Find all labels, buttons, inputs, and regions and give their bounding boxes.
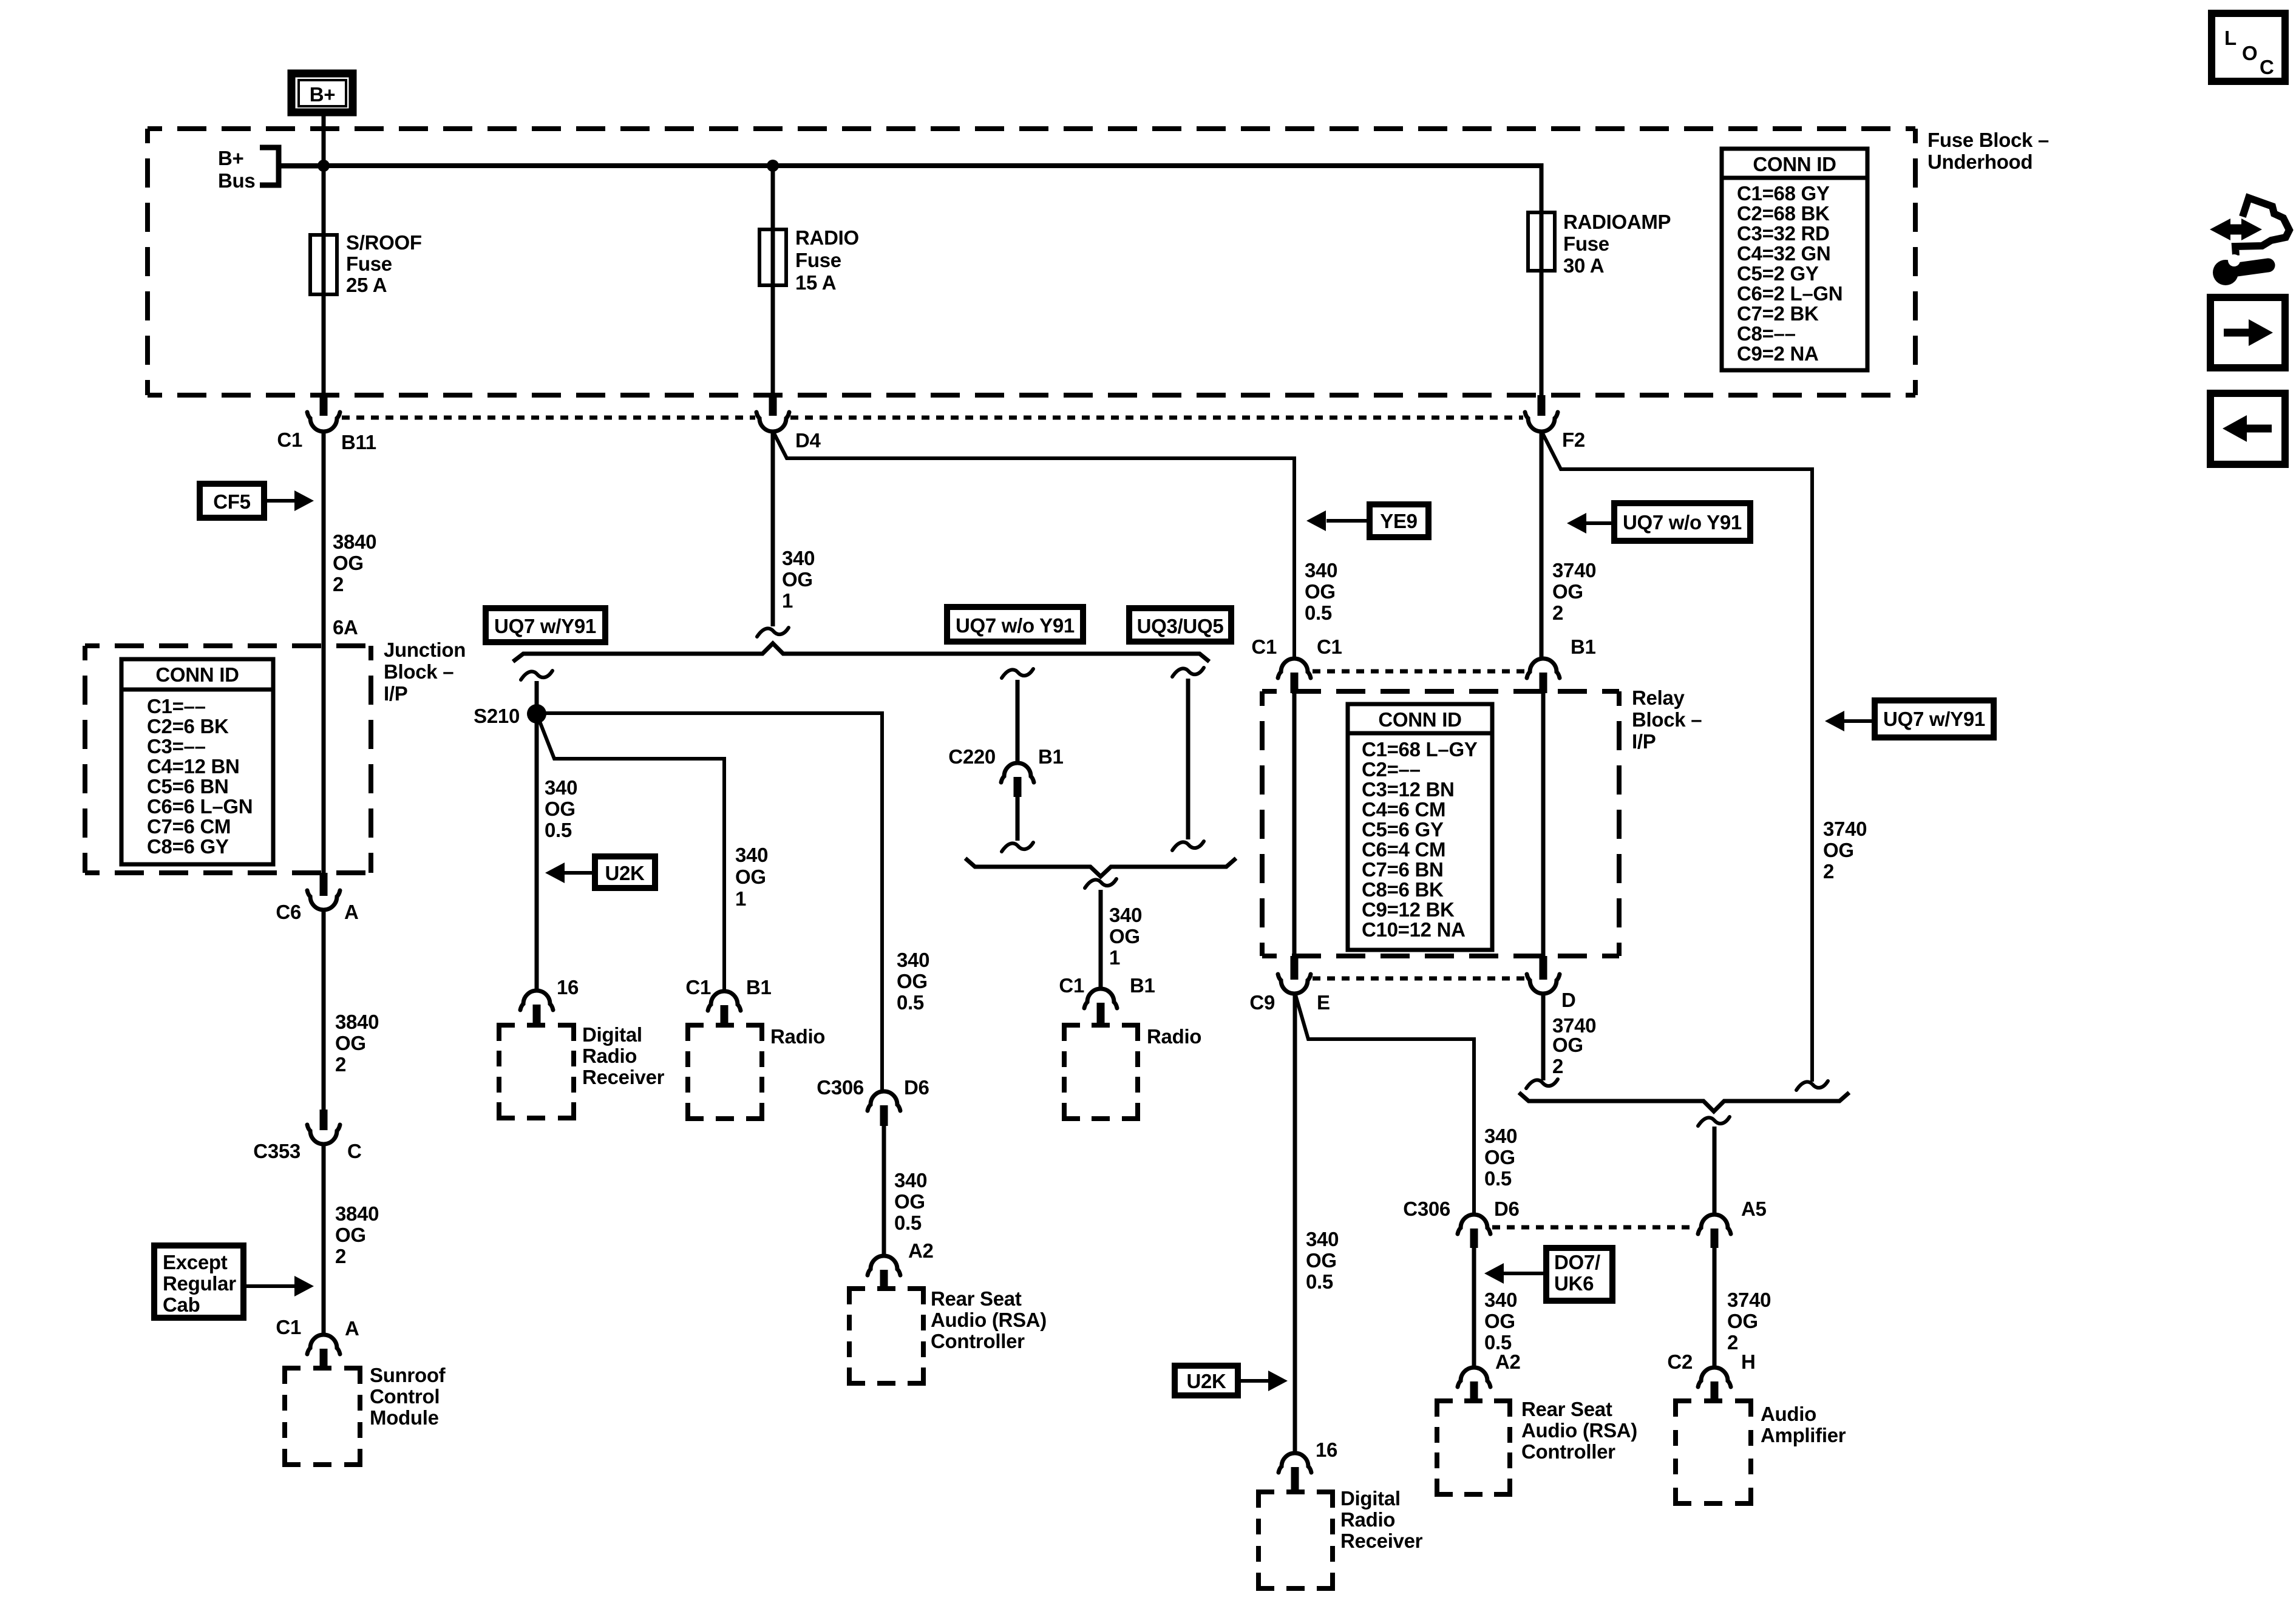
svg-text:15 A: 15 A <box>795 271 836 294</box>
svg-text:Receiver: Receiver <box>1340 1530 1423 1552</box>
svg-text:B+: B+ <box>310 83 336 106</box>
svg-text:C220: C220 <box>948 745 996 768</box>
label 340 OG 0.5 <box>894 1169 927 1234</box>
svg-text:340: 340 <box>1484 1125 1517 1147</box>
svg-text:OG: OG <box>735 866 766 888</box>
wire fuse to B11 <box>322 294 326 396</box>
svg-text:CF5: CF5 <box>213 490 250 513</box>
svg-text:2: 2 <box>1823 860 1834 883</box>
svg-text:A2: A2 <box>908 1239 934 1262</box>
svg-text:1: 1 <box>735 887 746 910</box>
svg-text:0.5: 0.5 <box>897 991 924 1014</box>
connector C1/B1 cup (right radio) <box>1084 989 1117 1008</box>
branch S210 to C306 (left) <box>537 713 882 1093</box>
harness option brace <box>513 643 1209 662</box>
svg-text:I/P: I/P <box>1632 730 1656 753</box>
svg-text:Digital: Digital <box>582 1023 642 1046</box>
svg-text:OG: OG <box>1484 1310 1515 1332</box>
svg-text:OG: OG <box>897 970 928 992</box>
connector D4 cup <box>756 412 789 432</box>
svg-text:Except: Except <box>163 1251 228 1273</box>
dotted line relay block top <box>1313 669 1525 674</box>
B+ bus wire <box>279 163 1544 168</box>
svg-text:B11: B11 <box>341 431 376 453</box>
dotted line relay block bottom <box>1313 977 1525 981</box>
connector C1/B1 cup (left radio) <box>708 991 741 1011</box>
connector A2 pin stub <box>880 1270 888 1290</box>
label Junction Block - I/P <box>384 639 466 705</box>
svg-text:340: 340 <box>1306 1228 1339 1250</box>
svg-text:Junction: Junction <box>384 639 466 661</box>
label 340 OG 0.5 (C306 branch) <box>1484 1125 1517 1190</box>
connector C1/B1 pin stub <box>1097 1003 1105 1026</box>
connector A2 cup (left RSA) <box>868 1256 900 1275</box>
splice S210 <box>527 704 546 724</box>
label B+ Bus <box>218 147 255 192</box>
svg-text:OG: OG <box>1727 1310 1758 1332</box>
dotted line C306 to A5 <box>1492 1225 1696 1230</box>
connector D cup <box>1527 974 1560 994</box>
svg-text:Block –: Block – <box>1632 708 1702 731</box>
svg-text:RADIO: RADIO <box>795 226 859 249</box>
connector F2 pin stub <box>1538 395 1546 416</box>
connector D4 pin stub <box>769 395 777 416</box>
label 340 OG 0.5 <box>1484 1289 1517 1354</box>
connector C1/A pin stub <box>320 1349 328 1369</box>
wire UQ3/UQ5 branch <box>1186 679 1190 839</box>
svg-text:Rear Seat: Rear Seat <box>1521 1398 1612 1420</box>
svg-text:C3=32 RD: C3=32 RD <box>1737 222 1830 245</box>
label 3840 OG 2 <box>335 1011 379 1076</box>
svg-text:C7=6 BN: C7=6 BN <box>1362 858 1444 881</box>
svg-text:C2=6 BK: C2=6 BK <box>147 715 229 737</box>
svg-text:340: 340 <box>735 844 768 866</box>
option box UQ7 w/Y91 <box>486 608 605 642</box>
svg-text:C3=––: C3=–– <box>147 735 206 757</box>
svg-text:Audio (RSA): Audio (RSA) <box>931 1309 1047 1331</box>
wire break <box>757 628 789 637</box>
svg-text:2: 2 <box>1552 602 1563 624</box>
svg-text:Relay: Relay <box>1632 686 1685 709</box>
wire brace to A5 <box>1713 1127 1717 1216</box>
label Audio Amplifier <box>1761 1403 1846 1446</box>
svg-text:Fuse: Fuse <box>346 252 392 275</box>
svg-text:OG: OG <box>894 1190 925 1213</box>
wire break C220 top <box>1002 669 1033 678</box>
wire break UQ3/UQ5 top <box>1172 668 1204 677</box>
svg-text:C2: C2 <box>1667 1351 1693 1373</box>
svg-text:Controller: Controller <box>931 1330 1025 1352</box>
Sunroof Control Module box <box>285 1368 360 1465</box>
power symbol B+ <box>291 73 353 112</box>
svg-text:OG: OG <box>333 552 364 574</box>
label Sunroof Control Module <box>370 1364 446 1429</box>
svg-text:U2K: U2K <box>605 862 645 884</box>
svg-text:UK6: UK6 <box>1554 1272 1594 1295</box>
svg-text:340: 340 <box>1484 1289 1517 1311</box>
svg-text:OG: OG <box>335 1224 366 1246</box>
svg-text:C9=2 NA: C9=2 NA <box>1737 342 1819 365</box>
svg-text:OG: OG <box>1552 1034 1583 1056</box>
svg-text:3740: 3740 <box>1823 818 1867 840</box>
connector C306/D6 pin stub <box>1470 1229 1478 1248</box>
svg-text:OG: OG <box>1552 580 1583 603</box>
svg-text:0.5: 0.5 <box>1305 602 1332 624</box>
option arrow Except Regular Cab <box>154 1246 314 1318</box>
wire break <box>1796 1081 1828 1090</box>
wire E down to digital radio receiver <box>1293 993 1297 1454</box>
wire F2 down to relay B1 <box>1540 431 1544 660</box>
connector C6/A pin stub <box>320 873 328 896</box>
label 3840 OG 2 <box>333 530 376 595</box>
connector C220/B1 pin stub <box>1014 777 1022 797</box>
svg-text:D6: D6 <box>904 1076 929 1099</box>
svg-text:Amplifier: Amplifier <box>1761 1424 1846 1446</box>
pass-through dotted line fuse block <box>342 416 1523 420</box>
branch D4 to relay block C1 <box>773 431 1294 660</box>
label Rear Seat Audio (RSA) Controller <box>931 1287 1047 1352</box>
label Digital Radio Receiver <box>1340 1487 1423 1552</box>
svg-text:Sunroof: Sunroof <box>370 1364 446 1386</box>
Audio Amplifier box <box>1676 1401 1751 1503</box>
wire break <box>521 671 552 680</box>
svg-text:340: 340 <box>897 949 929 971</box>
label 3740 OG 2 <box>1727 1289 1771 1354</box>
svg-text:UQ7 w/Y91: UQ7 w/Y91 <box>1883 708 1985 730</box>
svg-text:A: A <box>345 1317 359 1340</box>
svg-text:C3=12 BN: C3=12 BN <box>1362 778 1455 801</box>
svg-text:2: 2 <box>1552 1055 1563 1077</box>
connector C1/B11 cup <box>307 412 340 432</box>
svg-text:OG: OG <box>1305 580 1336 603</box>
svg-text:OG: OG <box>335 1032 366 1054</box>
svg-text:C7=2 BK: C7=2 BK <box>1737 302 1819 325</box>
svg-text:340: 340 <box>545 776 577 799</box>
svg-text:C1: C1 <box>1317 635 1342 658</box>
connector B1 relay cup <box>1527 659 1560 678</box>
Digital Radio Receiver box (right) <box>1258 1492 1333 1588</box>
label 340 OG 1 <box>782 547 815 612</box>
wire A5 to C2/H <box>1713 1248 1717 1368</box>
svg-text:S/ROOF: S/ROOF <box>346 231 422 254</box>
fuse S/ROOF 25 A <box>310 235 337 294</box>
svg-text:C: C <box>2260 56 2274 78</box>
svg-text:A: A <box>344 901 359 923</box>
connector C6/A cup <box>307 890 340 910</box>
svg-text:C7=6 CM: C7=6 CM <box>147 815 231 838</box>
label Digital Radio Receiver <box>582 1023 665 1088</box>
wire D4 down <box>771 431 775 626</box>
connector C2/H pin stub <box>1711 1381 1719 1402</box>
option arrow DO7/UK6 <box>1484 1248 1612 1301</box>
svg-text:RADIOAMP: RADIOAMP <box>1563 211 1671 233</box>
Digital Radio Receiver box (left) <box>499 1025 574 1118</box>
svg-text:D4: D4 <box>795 429 821 452</box>
option arrow U2K (left) <box>545 856 655 888</box>
svg-text:Radio: Radio <box>1147 1025 1201 1048</box>
connector C1 relay pin stub <box>1291 673 1299 693</box>
svg-text:UQ7 w/o Y91: UQ7 w/o Y91 <box>1623 511 1742 534</box>
wire bus to RADIOAMP fuse <box>1540 166 1544 214</box>
svg-text:Receiver: Receiver <box>582 1066 665 1088</box>
svg-text:S210: S210 <box>474 705 520 727</box>
fuse block CONN ID table <box>1722 149 1867 370</box>
option arrow YE9 <box>1306 504 1428 537</box>
svg-text:Radio: Radio <box>1340 1508 1395 1531</box>
svg-text:B1: B1 <box>1571 635 1596 658</box>
svg-text:Audio (RSA): Audio (RSA) <box>1521 1419 1637 1442</box>
svg-text:0.5: 0.5 <box>894 1212 922 1234</box>
Rear Seat Audio (RSA) Controller box (left) <box>849 1289 923 1383</box>
svg-text:C9: C9 <box>1249 991 1275 1014</box>
connector A2 cup (right RSA) <box>1458 1368 1490 1387</box>
connector 16 cup (digital radio receiver) <box>520 991 553 1010</box>
connector 16 cup (right DRR) <box>1279 1453 1311 1473</box>
wire bus to RADIO fuse <box>771 166 775 231</box>
svg-text:CONN ID: CONN ID <box>1753 153 1836 175</box>
svg-text:B+: B+ <box>218 147 244 169</box>
LOC legend box <box>2212 13 2285 81</box>
svg-text:2: 2 <box>1727 1331 1738 1354</box>
connector B1 relay pin stub <box>1540 673 1547 693</box>
connector C353/C pin stub <box>320 1110 328 1130</box>
option arrow CF5 <box>200 484 314 518</box>
svg-text:A5: A5 <box>1741 1198 1767 1220</box>
Fuse Block - Underhood dashed enclosure <box>148 129 1915 395</box>
svg-text:C306: C306 <box>1403 1198 1450 1220</box>
label Rear Seat Audio (RSA) Controller <box>1521 1398 1637 1463</box>
connector A5 cup <box>1698 1215 1731 1234</box>
option arrow U2K (right) <box>1175 1366 1288 1395</box>
wire bracket to bus <box>279 164 324 169</box>
label 3840 OG 2 <box>335 1202 379 1267</box>
svg-text:1: 1 <box>782 589 793 612</box>
svg-text:0.5: 0.5 <box>1306 1270 1333 1293</box>
svg-text:Fuse: Fuse <box>1563 232 1609 255</box>
svg-text:C1: C1 <box>276 1316 301 1338</box>
svg-text:A2: A2 <box>1495 1351 1521 1373</box>
svg-text:C1: C1 <box>1059 974 1084 997</box>
svg-text:340: 340 <box>782 547 815 569</box>
svg-text:C6=4 CM: C6=4 CM <box>1362 838 1445 861</box>
svg-text:E: E <box>1317 991 1330 1014</box>
svg-text:Controller: Controller <box>1521 1440 1615 1463</box>
label Relay Block - I/P <box>1632 686 1702 753</box>
svg-text:C353: C353 <box>253 1140 301 1162</box>
Radio box (left) <box>688 1025 762 1119</box>
wire C220 down <box>1016 797 1020 841</box>
fuse RADIOAMP 30 A <box>1528 212 1555 271</box>
svg-text:C5=6 GY: C5=6 GY <box>1362 818 1444 841</box>
svg-text:OG: OG <box>1484 1146 1515 1168</box>
label 340 OG 1 <box>1109 904 1142 969</box>
svg-text:Rear Seat: Rear Seat <box>931 1287 1022 1310</box>
svg-text:Audio: Audio <box>1761 1403 1816 1425</box>
junction dot RADIO branch <box>767 160 779 172</box>
svg-text:B1: B1 <box>746 976 772 998</box>
option box UQ7 w/o Y91 <box>947 607 1083 642</box>
connector 16 pin stub <box>1291 1467 1299 1493</box>
wire fuse to F2 <box>1540 271 1544 396</box>
svg-text:D: D <box>1561 989 1576 1011</box>
svg-text:C1=––: C1=–– <box>147 695 206 717</box>
B+ Bus bracket <box>260 147 279 185</box>
svg-text:C1=68 L–GY: C1=68 L–GY <box>1362 738 1478 761</box>
svg-text:Digital: Digital <box>1340 1487 1401 1510</box>
svg-text:340: 340 <box>894 1169 927 1191</box>
label 340 OG 0.5 <box>545 776 577 841</box>
fuse RADIO 15 A <box>759 229 786 285</box>
label S/ROOF Fuse 25 A <box>346 231 422 296</box>
svg-text:0.5: 0.5 <box>545 819 572 841</box>
wire B11 down to junction block <box>322 431 326 874</box>
svg-text:3840: 3840 <box>335 1011 379 1033</box>
wire UQ7 w/Y91 branch to S210 <box>535 681 539 991</box>
svg-text:Module: Module <box>370 1406 439 1429</box>
junction block CONN ID table <box>121 659 273 864</box>
label 340 OG 0.5 <box>1305 559 1337 624</box>
wire break <box>1002 842 1033 852</box>
svg-text:O: O <box>2242 42 2257 64</box>
svg-text:YE9: YE9 <box>1380 510 1417 532</box>
connector 16 pin stub <box>533 1005 541 1026</box>
svg-text:C10=12 NA: C10=12 NA <box>1362 918 1466 941</box>
Rear Seat Audio (RSA) Controller box (right) <box>1437 1401 1510 1494</box>
wire C353 down to sunroof module <box>322 1144 326 1336</box>
svg-text:B1: B1 <box>1038 745 1064 768</box>
navigation arrow previous box <box>2210 393 2285 464</box>
svg-text:340: 340 <box>1109 904 1142 926</box>
svg-text:Control: Control <box>370 1385 440 1408</box>
connector C1/A cup <box>307 1335 340 1354</box>
svg-text:Block –: Block – <box>384 660 453 683</box>
wire C306 to A2 (left) <box>882 1126 886 1256</box>
svg-text:Fuse: Fuse <box>795 249 841 271</box>
wire C1 through relay block <box>1292 693 1297 957</box>
svg-text:2: 2 <box>333 573 344 595</box>
connector E pin stub <box>1291 956 1299 980</box>
branch E to C306 (right) <box>1295 993 1474 1215</box>
svg-text:U2K: U2K <box>1186 1370 1226 1392</box>
svg-text:C6=6 L–GN: C6=6 L–GN <box>147 795 253 818</box>
svg-text:OG: OG <box>1109 925 1140 947</box>
svg-text:C2=––: C2=–– <box>1362 758 1421 781</box>
label 3740 OG 2 <box>1552 1014 1596 1077</box>
connector C306/D6 cup (right) <box>1458 1215 1490 1234</box>
wire C6 down to C353 <box>322 909 326 1110</box>
label 340 OG 0.5 (E wire) <box>1306 1228 1339 1293</box>
connector F2 cup <box>1525 412 1558 432</box>
Radio box (right) <box>1064 1025 1138 1119</box>
connector C2/H cup <box>1698 1368 1731 1387</box>
svg-text:Fuse Block –: Fuse Block – <box>1927 129 2049 151</box>
svg-text:C1: C1 <box>1251 635 1277 658</box>
svg-text:B1: B1 <box>1130 974 1155 997</box>
svg-text:C: C <box>347 1140 362 1162</box>
svg-text:H: H <box>1741 1351 1756 1373</box>
wire break <box>1526 1079 1558 1088</box>
connector C353/C cup <box>307 1125 340 1144</box>
svg-text:2: 2 <box>335 1053 346 1076</box>
connector C1/B11 pin stub <box>320 395 328 416</box>
wire break <box>1172 841 1204 850</box>
svg-text:Radio: Radio <box>582 1045 637 1067</box>
connector A5 pin stub <box>1711 1229 1719 1248</box>
relay block CONN ID table <box>1348 704 1492 950</box>
svg-text:C306: C306 <box>817 1076 864 1099</box>
svg-text:16: 16 <box>1316 1439 1337 1461</box>
svg-text:C1: C1 <box>685 976 711 998</box>
svg-text:C6=2 L–GN: C6=2 L–GN <box>1737 282 1843 305</box>
merge brace to amplifier <box>1519 1093 1849 1111</box>
svg-text:CONN ID: CONN ID <box>1378 708 1461 731</box>
connector C306/D6 cup (left) <box>868 1091 900 1111</box>
wire UQ7 w/o Y91 branch <box>1016 680 1020 764</box>
svg-text:16: 16 <box>557 976 579 998</box>
wire to right radio <box>1099 890 1103 989</box>
label 340 OG 1 <box>735 844 768 910</box>
svg-text:OG: OG <box>782 568 813 591</box>
svg-text:C6: C6 <box>276 901 301 923</box>
junction dot S/ROOF branch <box>318 160 330 172</box>
wire break <box>1085 879 1116 888</box>
connector C306/D6 pin stub <box>880 1105 888 1126</box>
option box UQ3/UQ5 <box>1129 608 1231 642</box>
svg-text:C4=32 GN: C4=32 GN <box>1737 242 1830 265</box>
svg-text:1: 1 <box>1109 946 1120 969</box>
svg-text:Regular: Regular <box>163 1272 236 1295</box>
merge brace to radio (right) <box>965 858 1236 876</box>
svg-text:I/P: I/P <box>384 682 407 705</box>
wire fuse to D4 <box>771 285 775 396</box>
svg-text:Radio: Radio <box>770 1025 825 1048</box>
svg-text:C1=68 GY: C1=68 GY <box>1737 182 1830 205</box>
svg-text:0.5: 0.5 <box>1484 1167 1512 1190</box>
svg-text:2: 2 <box>335 1245 346 1267</box>
svg-text:Underhood: Underhood <box>1927 151 2033 173</box>
svg-text:OG: OG <box>545 798 576 820</box>
svg-text:C5=2 GY: C5=2 GY <box>1737 262 1819 285</box>
svg-text:OG: OG <box>1823 839 1854 861</box>
svg-text:C4=12 BN: C4=12 BN <box>147 755 240 778</box>
label 3740 OG 2 <box>1552 559 1596 624</box>
svg-text:UQ7 w/Y91: UQ7 w/Y91 <box>494 615 596 637</box>
svg-text:Bus: Bus <box>218 169 255 192</box>
Relay Block - I/P dashed enclosure <box>1262 691 1619 956</box>
wire B+ to S/ROOF fuse <box>322 112 326 237</box>
svg-text:CONN ID: CONN ID <box>155 663 239 686</box>
svg-text:UQ7 w/o Y91: UQ7 w/o Y91 <box>956 614 1075 637</box>
branch F2 to amplifier brace <box>1541 431 1812 1082</box>
svg-text:C4=6 CM: C4=6 CM <box>1362 798 1445 821</box>
svg-text:3740: 3740 <box>1727 1289 1771 1311</box>
svg-text:C8=6 BK: C8=6 BK <box>1362 878 1444 901</box>
wire break <box>1698 1117 1730 1126</box>
svg-text:OG: OG <box>1306 1249 1337 1272</box>
svg-text:30 A: 30 A <box>1563 254 1604 277</box>
svg-text:C8=––: C8=–– <box>1737 322 1796 345</box>
connector C1 relay cup <box>1278 659 1311 678</box>
svg-text:25 A: 25 A <box>346 274 387 296</box>
option arrow UQ7 w/Y91 (right) <box>1825 700 1994 737</box>
svg-text:L: L <box>2224 27 2237 49</box>
connector E cup <box>1278 974 1311 994</box>
svg-text:3740: 3740 <box>1552 559 1596 581</box>
connector A2 pin stub <box>1470 1381 1478 1402</box>
svg-text:C8=6 GY: C8=6 GY <box>147 835 229 858</box>
wire D down <box>1541 993 1546 1080</box>
wire B1 through relay block <box>1541 693 1546 957</box>
